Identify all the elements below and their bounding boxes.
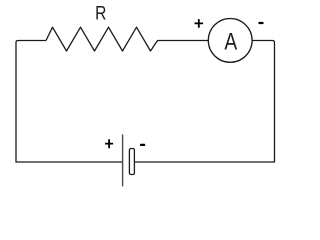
svg-text:A: A: [224, 27, 237, 55]
svg-text:R: R: [95, 2, 106, 24]
